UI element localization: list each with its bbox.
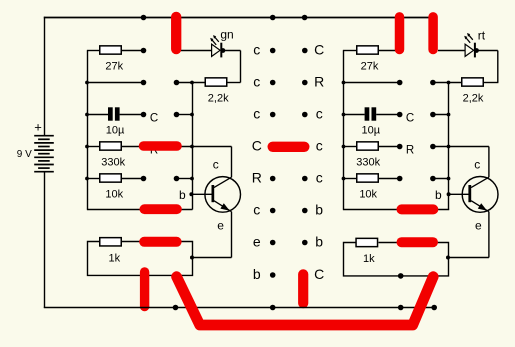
- svg-text:10k: 10k: [359, 189, 377, 201]
- matrix row2 letters: [253, 74, 324, 90]
- transistor Q2 right: [462, 177, 498, 213]
- node top hole a: [141, 15, 147, 21]
- capacitor C2 10u right: [343, 107, 451, 120]
- node base left: [189, 192, 193, 196]
- svg-text:2,2k: 2,2k: [463, 92, 484, 104]
- LED D1 gn left: [180, 35, 241, 82]
- jumper red 1k row right: [402, 237, 434, 247]
- capacitor C1 10u left: [87, 107, 194, 120]
- node rail R row3: [342, 113, 346, 117]
- svg-text:R: R: [406, 144, 414, 156]
- wire left rail: [87, 51, 89, 210]
- matrix row1 letters: [253, 42, 324, 58]
- svg-text:c: c: [253, 202, 260, 218]
- resistor R7 2,2k right: [462, 78, 499, 86]
- svg-text:10µ: 10µ: [362, 124, 381, 136]
- wire collector right: [488, 147, 490, 178]
- node bus hole d: [431, 305, 437, 311]
- wire top rail: [44, 17, 435, 19]
- node rail L row2: [85, 81, 89, 85]
- svg-text:c: c: [253, 74, 260, 90]
- svg-text:C: C: [252, 138, 262, 154]
- jumper red vertical bottom left: [140, 272, 149, 307]
- node rail R row2: [342, 81, 346, 85]
- resistor R4 10k left: [87, 174, 194, 182]
- matrix row7 letters: [253, 234, 323, 250]
- resistor R1 27k left: [87, 46, 146, 54]
- node rail L row5: [85, 177, 89, 181]
- svg-text:c: c: [316, 138, 323, 154]
- node base right: [447, 192, 451, 196]
- svg-text:gn: gn: [220, 27, 233, 41]
- wire emitter right: [446, 212, 489, 260]
- matrix row6 letters: [253, 202, 323, 218]
- svg-text:b: b: [315, 202, 323, 218]
- svg-text:10k: 10k: [105, 189, 123, 201]
- svg-text:1k: 1k: [363, 253, 375, 265]
- svg-text:e: e: [475, 218, 482, 232]
- wire column left: [192, 83, 194, 210]
- jumper red top B right: [395, 17, 405, 50]
- svg-text:rt: rt: [478, 28, 486, 42]
- wire right rail: [343, 51, 345, 210]
- wire row2 right: [343, 80, 462, 86]
- svg-text:330k: 330k: [101, 156, 125, 168]
- svg-text:2,2k: 2,2k: [208, 92, 229, 104]
- node bus hole c: [398, 305, 404, 311]
- svg-text:b: b: [253, 266, 261, 282]
- matrix row5 letters: [252, 170, 323, 186]
- wire jumper row left: [87, 209, 193, 211]
- svg-text:c: c: [316, 106, 323, 122]
- svg-text:b: b: [179, 188, 186, 202]
- svg-text:c: c: [253, 42, 260, 58]
- svg-text:e: e: [217, 218, 224, 232]
- node bus hole a: [173, 305, 179, 311]
- resistor R8 330k right: [343, 142, 489, 150]
- node bus hole b: [270, 305, 276, 311]
- resistor R2 2,2k left: [205, 78, 240, 86]
- svg-text:330k: 330k: [356, 156, 380, 168]
- svg-text:C: C: [314, 266, 324, 282]
- battery B1 9V: [34, 17, 54, 308]
- wire column right: [448, 83, 450, 210]
- svg-text:b: b: [435, 188, 442, 202]
- svg-text:C: C: [314, 42, 324, 58]
- node rail L row3: [85, 113, 89, 117]
- node rail R row5: [342, 177, 346, 181]
- resistor R9 10k right: [343, 174, 451, 182]
- wire base right: [449, 193, 469, 195]
- node rail R row4: [342, 145, 346, 149]
- matrix row8 letters + red vertical: [253, 266, 324, 303]
- svg-text:R: R: [252, 170, 262, 186]
- transistor Q1 left: [205, 177, 241, 213]
- svg-text:e: e: [253, 234, 261, 250]
- jumper red top A left: [171, 17, 181, 49]
- LED D2 rt right: [438, 33, 498, 83]
- wire jumper row right: [343, 209, 449, 211]
- node rail L row4: [85, 145, 89, 149]
- jumper red top C right: [428, 17, 438, 50]
- jumper red 330k row left: [144, 141, 178, 151]
- matrix row4 letters + red jumper: [252, 138, 323, 154]
- matrix row3 letters: [253, 106, 322, 122]
- wire base left: [191, 193, 211, 195]
- wire bottom bus: [44, 307, 434, 309]
- svg-text:c: c: [316, 170, 323, 186]
- jumper red base row left: [144, 204, 177, 214]
- svg-text:10µ: 10µ: [106, 124, 125, 136]
- wire collector left: [231, 147, 233, 178]
- svg-text:27k: 27k: [105, 60, 123, 72]
- node top hole b: [270, 15, 276, 21]
- resistor R5 1k left with loop: [88, 238, 193, 276]
- resistor R10 1k right with loop: [344, 238, 449, 278]
- jumper red 1k row left: [144, 237, 176, 247]
- wire row2 left: [87, 80, 205, 86]
- svg-text:1k: 1k: [108, 252, 120, 264]
- svg-text:c: c: [213, 158, 219, 172]
- node top hole c: [302, 15, 308, 21]
- resistor R3 330k left: [87, 142, 232, 150]
- svg-text:27k: 27k: [361, 60, 379, 72]
- svg-text:c: c: [253, 106, 260, 122]
- svg-text:R: R: [314, 74, 324, 90]
- jumper red big trapezoid: [177, 277, 434, 325]
- svg-text:b: b: [315, 234, 323, 250]
- svg-text:9 V: 9 V: [17, 149, 32, 160]
- resistor R6 27k right: [343, 46, 400, 54]
- svg-text:c: c: [474, 158, 480, 172]
- wire emitter left: [190, 212, 232, 260]
- svg-text:C: C: [406, 112, 414, 124]
- jumper red base row right: [402, 204, 434, 214]
- svg-text:C: C: [150, 112, 158, 124]
- svg-text:+: +: [34, 120, 42, 135]
